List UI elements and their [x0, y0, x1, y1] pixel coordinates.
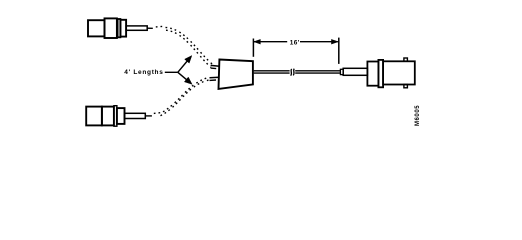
wire lead from P2	[145, 115, 152, 117]
connector P2 barrel	[125, 113, 146, 118]
connector P1 rear shell	[120, 20, 126, 37]
connector P1 (top left plug) body	[88, 20, 105, 36]
wire bottom branch solid entry into boot	[210, 76, 220, 79]
wire top branch cable lower edge (dash-dot curve)	[166, 30, 211, 67]
connector P1 barrel	[126, 26, 147, 30]
svg-text:4' Lengths: 4' Lengths	[124, 69, 163, 76]
leader lower arrow shaft	[178, 72, 189, 81]
dimension right arrowhead	[332, 40, 338, 44]
dimension left arrowhead	[254, 40, 260, 44]
leader upper arrowhead	[185, 56, 192, 64]
wire top branch solid entry into boot	[211, 64, 220, 67]
connector P1 coupling nut	[105, 18, 117, 38]
connector P3 front shell	[367, 62, 378, 86]
wire main cable upper edge (boot to break)	[254, 70, 290, 72]
cable break symbol	[291, 69, 292, 76]
connector P3 top bayonet lug	[404, 58, 408, 61]
connector P3 bottom bayonet lug	[404, 85, 408, 88]
svg-text:16': 16'	[290, 40, 300, 47]
connector P2 (bottom left plug) body	[86, 107, 102, 126]
dimension 16' right extension line	[338, 38, 340, 64]
label leader line for 4' Lengths	[165, 71, 178, 73]
connector P3 coupling ring	[378, 60, 383, 87]
connector P3 main body	[383, 61, 415, 84]
connector P3 (right BNC plug) ferrule step	[340, 69, 343, 74]
connector P2 rear shell	[117, 108, 125, 124]
connector P2 gasket ring	[114, 106, 117, 127]
dimension 16' line right segment	[300, 41, 338, 43]
dimension 16' left extension line	[252, 39, 254, 57]
connector P1 gasket ring	[118, 19, 121, 37]
leader upper arrow shaft	[178, 60, 189, 73]
leader lower arrowhead	[184, 77, 192, 84]
wire main cable upper edge (break to P3)	[295, 70, 340, 72]
wire bottom branch cable lower edge (dash-dot curve)	[161, 80, 209, 116]
connector P2 coupling nut	[102, 107, 114, 126]
wire bottom branch cable upper edge (dash-dot curve)	[154, 77, 210, 113]
dimension 16' line left segment	[254, 41, 287, 43]
wire lead from P1	[147, 27, 153, 29]
wire top branch cable upper edge (dash-dot curve)	[156, 26, 213, 64]
Y-boot molded junction	[219, 60, 253, 89]
wire main cable lower edge (break to P3)	[295, 72, 340, 74]
svg-text:M6005: M6005	[415, 105, 421, 126]
wire main cable lower edge (boot to break)	[254, 72, 290, 74]
connector P3 crimp sleeve	[343, 68, 367, 75]
